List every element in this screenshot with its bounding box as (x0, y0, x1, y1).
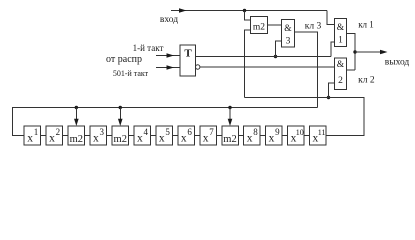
svg-text:&: & (337, 60, 345, 70)
wire (150, 135, 155, 137)
svg-text:выход: выход (385, 58, 410, 68)
wire: T line up to &1 lower input (331, 42, 335, 57)
svg-text:2: 2 (338, 76, 343, 86)
gate &2 (кл 2) (335, 58, 347, 90)
wire arrow down into m2 (229, 108, 231, 122)
svg-text:4: 4 (143, 127, 148, 137)
wire: 1-й такт input arrow (156, 55, 180, 57)
svg-text:m2: m2 (114, 134, 127, 145)
svg-text:m2: m2 (223, 134, 236, 145)
wire: tap down to m2 upper input (245, 11, 251, 21)
node on T line for &3 (274, 55, 277, 58)
wire: вход input line (171, 10, 327, 12)
svg-text:&: & (284, 24, 292, 34)
register cell x8 (244, 126, 261, 145)
svg-text:x: x (49, 133, 55, 145)
wire (304, 135, 309, 137)
register cell x2 (46, 126, 63, 145)
wire: m2 output to gate 3 (268, 24, 282, 26)
svg-text:T: T (184, 48, 192, 60)
wire (172, 135, 177, 137)
node: вход tap to m2 (243, 9, 246, 12)
register adder m2 (68, 126, 85, 145)
wire: &3 output down to register feedback line (295, 32, 318, 108)
wire (260, 135, 265, 137)
wire (41, 135, 46, 137)
register cell x9 (266, 126, 283, 145)
svg-text:9: 9 (275, 127, 280, 137)
register adder m2 (112, 126, 129, 145)
wire: tap up to &2 lower input (329, 83, 335, 98)
wire (282, 135, 287, 137)
node feedback tap over m2 (228, 106, 231, 109)
wire: x11 output feedback to top (245, 98, 365, 136)
svg-text:кл 2: кл 2 (358, 76, 375, 86)
svg-text:3: 3 (286, 37, 291, 47)
wire (194, 135, 199, 137)
gate &3 (кл 3) (282, 20, 295, 48)
svg-text:3: 3 (100, 127, 105, 137)
wire: 501-й такт input arrow (156, 67, 180, 69)
svg-text:от распр: от распр (106, 54, 142, 65)
wire arrow down into m2 (75, 108, 77, 122)
wire: feedback up to m2 lower input (245, 30, 251, 98)
register cell x4 (134, 126, 151, 145)
svg-text:x: x (27, 133, 33, 145)
svg-text:1: 1 (34, 127, 39, 137)
node on register output line for &2 (327, 96, 330, 99)
svg-text:x: x (137, 133, 143, 145)
svg-text:x: x (247, 133, 253, 145)
arrowhead выход (380, 50, 388, 55)
wire (129, 135, 134, 137)
svg-text:x: x (181, 133, 187, 145)
node feedback tap over m2 (75, 106, 78, 109)
svg-text:2: 2 (56, 127, 61, 137)
svg-text:10: 10 (296, 128, 304, 137)
wire: выход arrow (355, 51, 381, 53)
svg-text:5: 5 (165, 127, 170, 137)
svg-text:8: 8 (253, 127, 258, 137)
svg-text:x: x (269, 133, 275, 145)
svg-text:501-й такт: 501-й такт (113, 69, 149, 78)
register cell x10 (288, 126, 305, 145)
svg-text:x: x (203, 133, 209, 145)
register cell x3 (90, 126, 107, 145)
svg-text:x: x (93, 133, 99, 145)
arrowhead on вход line (179, 8, 187, 13)
wire: T direct output (196, 56, 332, 58)
wire (216, 135, 221, 137)
svg-text:&: & (337, 23, 345, 33)
register cell x11 (310, 126, 327, 145)
svg-text:11: 11 (318, 128, 326, 137)
svg-text:1-й такт: 1-й такт (133, 43, 164, 53)
wire: T inverted output to &2 (200, 66, 335, 68)
m2 adder top (251, 17, 268, 34)
inversion circle on T (196, 65, 200, 69)
svg-text:кл 3: кл 3 (305, 22, 322, 32)
wire: feedback line over register (13, 108, 318, 136)
svg-text:m2: m2 (70, 134, 83, 145)
node: output junction (353, 50, 356, 53)
wire: T line tap to &3 lower input (276, 41, 282, 57)
wire (63, 135, 68, 137)
svg-text:кл 1: кл 1 (358, 20, 374, 30)
svg-text:x: x (159, 133, 165, 145)
svg-text:m2: m2 (253, 23, 265, 33)
register cell x5 (156, 126, 173, 145)
gate &1 (кл 1) (335, 19, 347, 47)
svg-text:1: 1 (338, 36, 343, 46)
register cell x6 (178, 126, 195, 145)
register cell x1 (24, 126, 41, 145)
svg-text:6: 6 (187, 127, 192, 137)
wire: &2 output to output node (347, 69, 356, 71)
wire (107, 135, 112, 137)
wire (85, 135, 90, 137)
svg-text:7: 7 (209, 127, 214, 137)
trigger T (180, 45, 196, 76)
wire: кл1 top input from вход line (327, 11, 335, 25)
wire (238, 135, 243, 137)
register adder m2 (222, 126, 239, 145)
wire arrow down into m2 (119, 108, 121, 122)
node feedback tap over m2 (119, 106, 122, 109)
svg-text:вход: вход (160, 15, 178, 25)
wire: &1 output to output node (347, 34, 356, 71)
register cell x7 (200, 126, 217, 145)
